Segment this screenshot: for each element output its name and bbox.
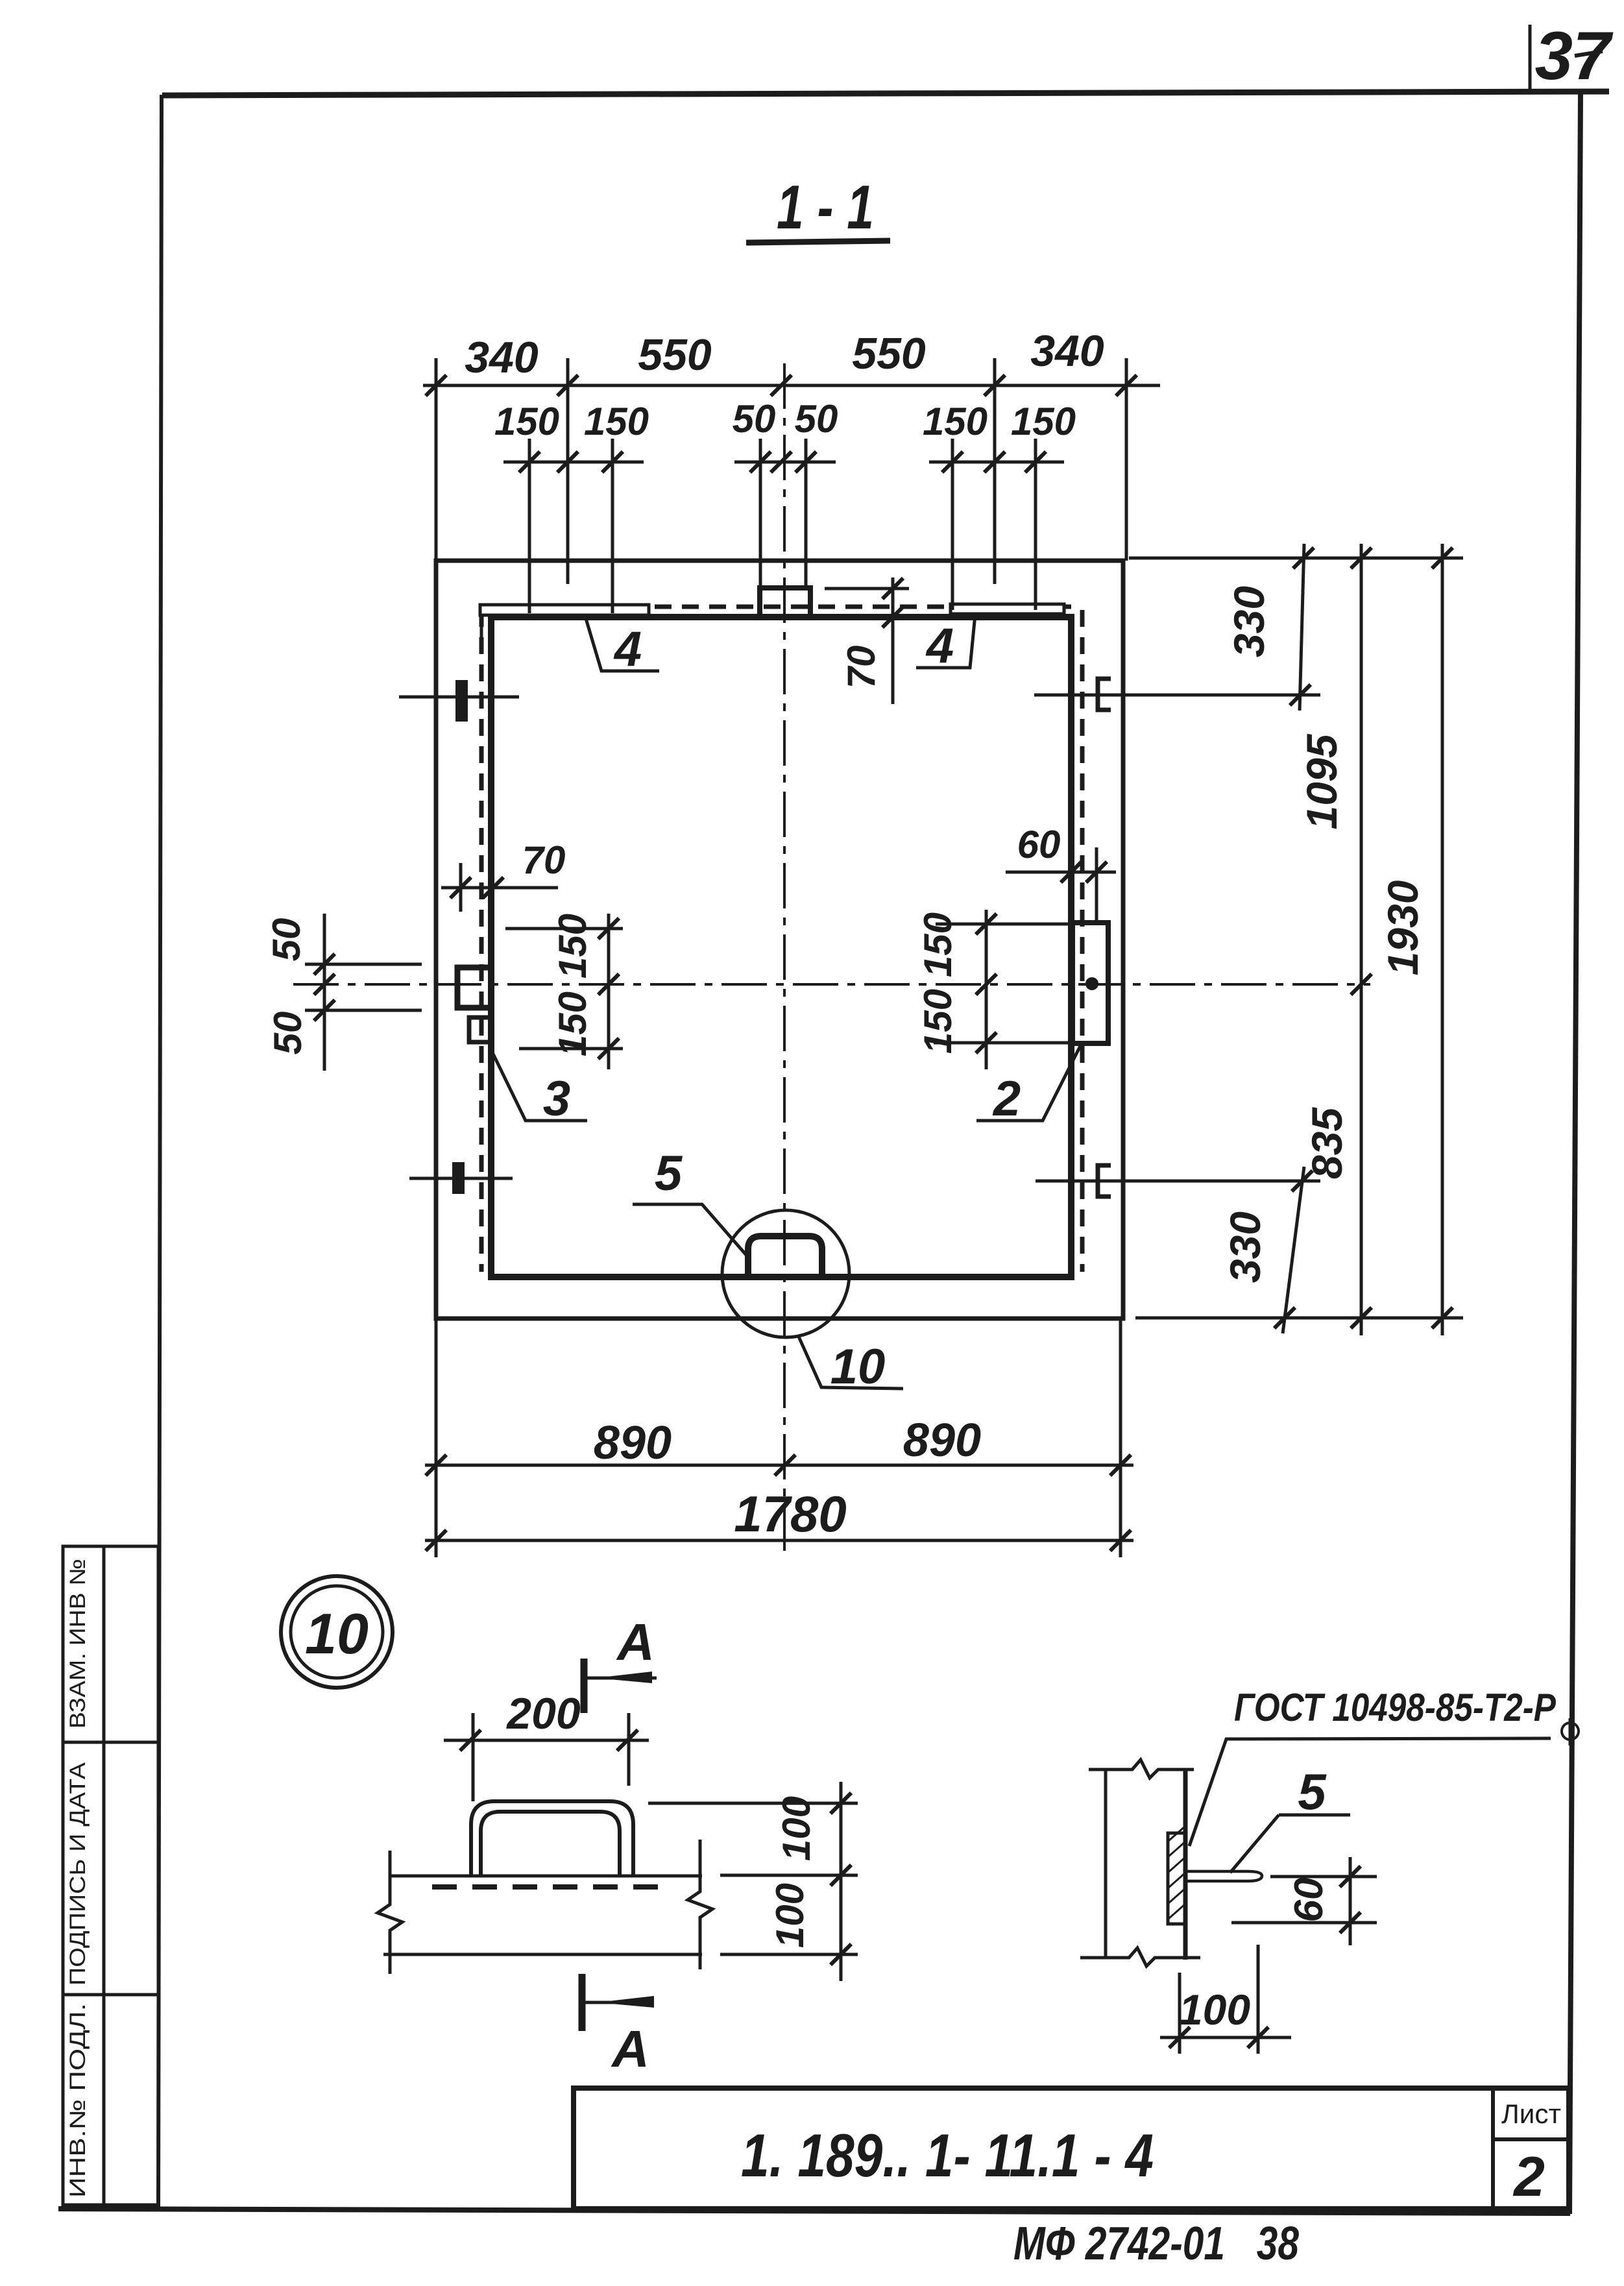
top dimension 150/150 right	[929, 461, 1064, 464]
svg-text:340: 340	[1030, 326, 1104, 376]
top dimension line 340-550-550-340	[423, 384, 1160, 387]
page bottom border	[58, 2209, 1570, 2213]
page number divider	[1529, 25, 1532, 91]
svg-text:2: 2	[992, 1071, 1021, 1126]
stamp column divider	[103, 1546, 106, 2205]
leader item 2	[976, 1045, 1081, 1121]
svg-text:37: 37	[1535, 18, 1614, 94]
svg-text:150: 150	[916, 912, 960, 977]
svg-text:60: 60	[1017, 823, 1061, 866]
svg-text:ГОСТ 10498-85-Т2-Р: ГОСТ 10498-85-Т2-Р	[1234, 1686, 1557, 1729]
slab opening inner edge	[491, 617, 1071, 1277]
page left border	[158, 95, 162, 2209]
dimension 70 at top protrusion	[825, 587, 909, 590]
wall top break	[1089, 1760, 1194, 1778]
dimension 890/890	[425, 1464, 1133, 1467]
svg-text:10: 10	[305, 1601, 369, 1666]
quarter mark left upper	[456, 681, 467, 721]
dimension 1780	[425, 1539, 1133, 1542]
stamp divider 1	[63, 1741, 158, 1744]
svg-text:ИНВ.№ ПОДЛ.: ИНВ.№ ПОДЛ.	[66, 2003, 90, 2198]
wall face line	[1183, 1769, 1188, 1960]
svg-text:150: 150	[923, 400, 988, 443]
svg-text:70: 70	[840, 646, 883, 689]
leader item 3	[491, 1050, 587, 1121]
embedded item 3 (left channel)	[457, 967, 491, 1008]
hidden edge top (dashed)	[491, 605, 1071, 609]
svg-text:A: A	[616, 1613, 655, 1671]
quarter mark right upper	[1098, 679, 1111, 710]
svg-text:550: 550	[638, 330, 712, 380]
dimension 70 left	[441, 886, 558, 890]
svg-text:100: 100	[768, 1883, 812, 1948]
svg-text:5: 5	[1298, 1763, 1327, 1820]
svg-text:1095: 1095	[1298, 733, 1346, 829]
svg-text:890: 890	[594, 1417, 672, 1469]
stamp divider 2	[63, 1993, 158, 1997]
dimension 150/150 right side	[985, 910, 988, 1069]
item 3 lower tab	[469, 1017, 491, 1042]
svg-text:1 - 1: 1 - 1	[777, 173, 874, 242]
svg-text:70: 70	[522, 838, 566, 882]
break line left	[378, 1851, 402, 1974]
GOST leader	[1189, 1738, 1551, 1846]
svg-text:МФ 2742-01 38: МФ 2742-01 38	[1013, 2218, 1299, 2270]
svg-text:5: 5	[655, 1146, 683, 1201]
page top border	[162, 91, 1609, 95]
svg-text:4: 4	[925, 618, 954, 674]
extension lines bottom	[435, 1319, 438, 1557]
svg-text:ПОДПИСЬ И ДАТА: ПОДПИСЬ И ДАТА	[66, 1762, 90, 1986]
list cell divider vertical	[1491, 2088, 1495, 2209]
svg-text:10: 10	[830, 1339, 886, 1394]
svg-text:330: 330	[1225, 586, 1273, 657]
embedded plate 4 left	[480, 605, 649, 615]
leader item 4 left	[585, 616, 659, 671]
dimension 100/100 detail	[648, 1802, 858, 1805]
welded plate (hatched)	[1168, 1833, 1185, 1924]
section title underline	[746, 241, 890, 243]
embedded item 2 (right plate)	[1073, 923, 1108, 1043]
svg-text:1780: 1780	[734, 1485, 847, 1542]
dimension 60 right	[1006, 871, 1116, 874]
svg-text:150: 150	[551, 991, 594, 1056]
svg-text:50: 50	[266, 1012, 309, 1055]
extension line bottom edge right	[1135, 1317, 1463, 1320]
slab top line (detail)	[390, 1875, 702, 1878]
svg-text:330: 330	[1221, 1211, 1269, 1283]
svg-text:A: A	[611, 2020, 649, 2078]
item 2 anchor dot	[1085, 977, 1098, 990]
wall back line	[1104, 1769, 1108, 1958]
lifting loop bracket inner	[481, 1812, 620, 1876]
stamp column box	[63, 1546, 158, 2205]
svg-text:2: 2	[1512, 2146, 1545, 2208]
dim line 330 top	[1300, 544, 1304, 711]
svg-text:4: 4	[613, 622, 642, 677]
leader detail 10	[799, 1337, 903, 1389]
svg-text:100: 100	[775, 1796, 818, 1861]
dim line 1095/835	[1360, 544, 1363, 1335]
horizontal centerline	[293, 983, 1370, 986]
break line right	[688, 1840, 712, 1969]
dim line 330 bottom	[1283, 1167, 1304, 1333]
slab bottom line (detail)	[383, 1953, 702, 1956]
extension line top edge right	[1129, 557, 1463, 560]
svg-text:1930: 1930	[1379, 880, 1427, 975]
section mark A bottom	[579, 1974, 586, 2031]
svg-text:50: 50	[733, 397, 776, 441]
svg-text:150: 150	[494, 400, 559, 443]
dimension 60 detail	[1270, 1875, 1377, 1879]
list cell divider horizontal	[1493, 2137, 1569, 2141]
dimension 200	[444, 1739, 649, 1742]
quarter mark left lower	[453, 1163, 464, 1193]
quarter mark right lower	[1098, 1165, 1111, 1197]
anchor rod 5	[1185, 1871, 1262, 1881]
svg-text:Лист: Лист	[1501, 2098, 1561, 2129]
top dimension 50/50 center	[734, 461, 836, 464]
svg-text:150: 150	[916, 989, 960, 1054]
title block box	[574, 2088, 1569, 2209]
svg-text:550: 550	[852, 329, 926, 378]
svg-text:1. 189.. 1- 11.1 - 4: 1. 189.. 1- 11.1 - 4	[741, 2121, 1154, 2189]
top dimension 150/150 left	[503, 461, 644, 464]
svg-text:150: 150	[584, 400, 649, 443]
lifting loop bracket outer	[471, 1801, 633, 1876]
svg-text:200: 200	[505, 1689, 581, 1738]
svg-text:ВЗАМ. ИНВ №: ВЗАМ. ИНВ №	[66, 1559, 90, 1729]
hidden edge right (dashed)	[1080, 610, 1085, 1272]
dim line 1930	[1441, 544, 1444, 1335]
svg-text:890: 890	[903, 1415, 981, 1466]
lifting loop 10 (channel at bottom)	[748, 1236, 822, 1277]
wall bottom break	[1080, 1948, 1200, 1966]
embedded plate 4 right	[951, 604, 1064, 614]
svg-text:50: 50	[265, 918, 308, 962]
vertical centerline	[783, 363, 786, 1554]
dimension 100 detail	[1178, 1973, 1182, 2054]
detail circle 10	[722, 1210, 849, 1337]
page right border	[1569, 94, 1581, 2214]
svg-text:340: 340	[465, 333, 539, 382]
slab hidden line (detail)	[432, 1884, 670, 1890]
svg-text:150: 150	[551, 914, 594, 979]
svg-text:150: 150	[1011, 400, 1076, 443]
slab outer edge	[436, 561, 1123, 1319]
leader item 4 right	[916, 614, 975, 668]
svg-text:835: 835	[1303, 1107, 1351, 1179]
hidden edge left (dashed)	[479, 610, 484, 1272]
svg-text:3: 3	[543, 1071, 570, 1126]
top protrusion (channel 5 seen in plan)	[760, 588, 810, 617]
svg-text:60: 60	[1287, 1878, 1331, 1923]
svg-text:50: 50	[795, 397, 838, 441]
svg-text:100: 100	[1179, 1986, 1250, 2034]
dimension 50/50 far left	[323, 914, 326, 1071]
detail balloon 10	[281, 1576, 393, 1688]
section mark A top	[581, 1659, 588, 1713]
dimension 150/150 left side	[607, 914, 611, 1069]
